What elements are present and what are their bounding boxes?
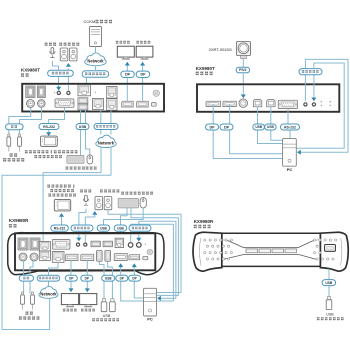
svg-text:PC: PC bbox=[147, 317, 153, 322]
svg-text:Network: Network bbox=[87, 59, 104, 64]
svg-text:KX9980T: KX9980T bbox=[21, 68, 40, 73]
svg-text:KX9980T: KX9980T bbox=[196, 66, 215, 71]
svg-text:KX9980R: KX9980R bbox=[194, 219, 214, 224]
svg-text:USB: USB bbox=[255, 125, 262, 129]
svg-text:DP: DP bbox=[125, 73, 131, 77]
svg-text:Network: Network bbox=[98, 141, 115, 146]
svg-text:USB: USB bbox=[103, 314, 111, 318]
svg-text:RS-232: RS-232 bbox=[54, 226, 66, 230]
svg-text:DP: DP bbox=[209, 125, 215, 129]
svg-text:USB: USB bbox=[79, 125, 87, 129]
svg-text:USB: USB bbox=[105, 276, 112, 280]
svg-text:CCKM: CCKM bbox=[84, 19, 96, 24]
svg-text:USB: USB bbox=[267, 125, 274, 129]
svg-text:USB: USB bbox=[325, 281, 333, 285]
svg-text:USB: USB bbox=[100, 226, 107, 230]
svg-text:RS-232: RS-232 bbox=[284, 125, 296, 129]
svg-text:USB: USB bbox=[117, 226, 124, 230]
svg-text:KX9980R: KX9980R bbox=[9, 218, 29, 223]
svg-text:DP: DP bbox=[224, 125, 230, 129]
svg-text:PS/2: PS/2 bbox=[239, 68, 246, 72]
svg-text:USB: USB bbox=[326, 313, 334, 317]
svg-text:DP: DP bbox=[140, 73, 146, 77]
svg-text:PC: PC bbox=[287, 167, 293, 172]
svg-text:RS-232: RS-232 bbox=[43, 125, 55, 129]
svg-text:2XRT-0015G: 2XRT-0015G bbox=[209, 47, 232, 52]
svg-text:Network: Network bbox=[40, 291, 57, 296]
